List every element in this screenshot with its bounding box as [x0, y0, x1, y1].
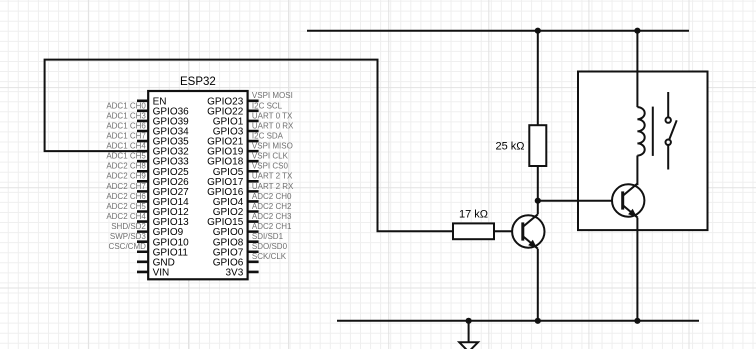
svg-text:ADC1 CH5: ADC1 CH5 [106, 152, 146, 161]
U1 pin row 16: GPIO11 / GPIO7 [109, 242, 288, 258]
U1 pin row 9: GPIO26 / GPIO17 [106, 172, 293, 188]
svg-text:25 kΩ: 25 kΩ [495, 141, 524, 153]
relay switch contact top terminal [667, 92, 669, 118]
wire rail to R2 [537, 31, 539, 126]
svg-text:VSPI MOSI: VSPI MOSI [252, 91, 293, 100]
svg-text:ESP32: ESP32 [180, 76, 216, 88]
svg-text:SCK/CLK: SCK/CLK [252, 252, 287, 261]
svg-text:ADC2 CH5: ADC2 CH5 [106, 202, 146, 211]
U1 pin row 2: GPIO36 / GPIO22 [106, 101, 282, 117]
svg-text:SDO/SD0: SDO/SD0 [252, 242, 288, 251]
U1 right pin stubs [248, 101, 259, 272]
IC U1 ESP32 body [148, 76, 247, 279]
relay switch lower contact [666, 140, 671, 145]
wire top supply rail [307, 30, 689, 32]
U1 pin row 15: GPIO10 / GPIO8 [110, 232, 284, 248]
relay switch blade [669, 120, 676, 139]
U1 pin row 17: GND / GPIO6 [153, 252, 287, 268]
svg-text:ADC2 CH6: ADC2 CH6 [106, 192, 146, 201]
U1 pin row 10: GPIO27 / GPIO16 [106, 182, 294, 198]
svg-text:SWP/SD3: SWP/SD3 [110, 232, 147, 241]
svg-text:UART 0 TX: UART 0 TX [252, 111, 293, 120]
wire R1 to Q1 base [494, 230, 523, 232]
wire Q1 emitter to ground rail [537, 249, 539, 321]
svg-text:ADC1 CH3: ADC1 CH3 [106, 111, 146, 120]
U1 pin row 18: VIN / 3V3 [153, 267, 244, 278]
svg-text:ADC2 CH1: ADC2 CH1 [252, 222, 292, 231]
U1 pin row 5: GPIO35 / GPIO21 [106, 131, 283, 147]
svg-text:VSPI MISO: VSPI MISO [252, 142, 293, 151]
wire GPIO32 to 17k resistor (left, up, across top, down) [45, 60, 453, 232]
svg-text:ADC2 CH0: ADC2 CH0 [252, 192, 292, 201]
svg-text:UART 0 RX: UART 0 RX [252, 121, 294, 130]
svg-text:ADC2 CH9: ADC2 CH9 [106, 172, 146, 181]
U1 pin row 13: GPIO13 / GPIO15 [106, 212, 292, 228]
resistor R1 17 kOhm [453, 208, 494, 239]
wire ground rail [337, 320, 699, 322]
svg-text:ADC2 CH2: ADC2 CH2 [252, 202, 292, 211]
svg-text:VSPI CLK: VSPI CLK [252, 152, 289, 161]
svg-text:ADC2 CH8: ADC2 CH8 [106, 162, 146, 171]
ground symbol [459, 321, 478, 349]
transistor Q1 (NPN) [512, 214, 544, 248]
svg-text:ADC1 CH7: ADC1 CH7 [106, 131, 146, 140]
svg-text:ADC1 CH6: ADC1 CH6 [106, 121, 146, 130]
junction node A [535, 198, 541, 204]
U1 pin row 8: GPIO25 / GPIO5 [106, 162, 288, 178]
svg-text:17 kΩ: 17 kΩ [459, 208, 488, 220]
U1 left pin stubs [137, 101, 148, 272]
wire node to Q1 collector [537, 201, 539, 215]
svg-text:3V3: 3V3 [226, 267, 244, 278]
relay coil core bar [652, 107, 654, 156]
U1 pin row 6: GPIO32 / GPIO19 [106, 142, 292, 158]
wire R2 to node [537, 166, 539, 201]
U1 pin row 12: GPIO12 / GPIO2 [106, 202, 292, 218]
junction dot rail/coil [634, 28, 640, 34]
svg-text:VSPI CS0: VSPI CS0 [252, 162, 289, 171]
svg-text:ADC2 CH4: ADC2 CH4 [106, 212, 146, 221]
junction dot ground symbol [466, 318, 472, 324]
svg-text:ADC2 CH7: ADC2 CH7 [106, 182, 146, 191]
svg-text:ADC2 CH3: ADC2 CH3 [252, 212, 292, 221]
transistor Q2 (NPN) [612, 183, 644, 217]
junction dot rail/R2 [535, 28, 541, 34]
relay switch upper contact [666, 117, 671, 122]
U1 pin row 7: GPIO33 / GPIO18 [106, 152, 288, 168]
U1 pin row 1: EN / GPIO23 [153, 91, 293, 107]
svg-text:UART 2 RX: UART 2 RX [252, 182, 294, 191]
U1 pin row 11: GPIO14 / GPIO4 [106, 192, 292, 208]
resistor R2 25 kOhm [495, 125, 546, 166]
svg-text:ADC1 CH4: ADC1 CH4 [106, 142, 146, 151]
wire rail to relay coil [636, 31, 638, 107]
svg-text:SHD/SD2: SHD/SD2 [111, 222, 146, 231]
relay coil L1 (inductor) [637, 107, 644, 155]
U1 pin row 14: GPIO9 / GPIO0 [111, 222, 292, 238]
svg-text:ADC1 CH0: ADC1 CH0 [106, 101, 146, 110]
wire coil to Q2 collector [636, 156, 638, 186]
svg-text:I2C SCL: I2C SCL [252, 101, 283, 110]
junction dot Q1 emitter/rail [535, 318, 541, 324]
wire node to Q2 base [538, 200, 623, 202]
svg-text:VIN: VIN [153, 267, 170, 278]
svg-text:CSC/CMD: CSC/CMD [109, 242, 147, 251]
junction dot Q2 emitter/rail [634, 318, 640, 324]
wire Q2 emitter to ground rail [636, 218, 638, 321]
svg-text:SDI/SD1: SDI/SD1 [252, 232, 284, 241]
U1 pin row 4: GPIO34 / GPIO3 [106, 121, 294, 137]
relay switch bottom terminal [667, 145, 669, 169]
svg-text:UART 2 TX: UART 2 TX [252, 172, 293, 181]
relay K1 outline box [578, 72, 708, 231]
svg-text:I2C SDA: I2C SDA [252, 131, 284, 140]
U1 pin row 3: GPIO39 / GPIO1 [106, 111, 293, 127]
